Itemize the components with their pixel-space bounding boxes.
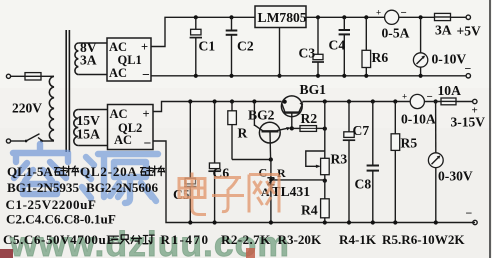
wire: LM7805 output rail to +5V fuse	[306, 16, 435, 18]
value label R2	[301, 111, 318, 126]
wire: bottom terminal to switch	[11, 140, 25, 142]
svg-text:−: −	[142, 67, 150, 82]
terminal 0V (5V section)	[466, 74, 470, 78]
fuse 3A	[435, 13, 467, 20]
svg-text:R2: R2	[301, 111, 318, 126]
wire: QL1 + output up to top rail	[151, 17, 255, 46]
capacitor C5	[184, 99, 196, 224]
svg-text:+: +	[402, 92, 407, 102]
svg-text:+: +	[376, 8, 381, 18]
svg-text:3-15V: 3-15V	[451, 115, 486, 130]
value label R5	[401, 136, 418, 151]
svg-text:AC: AC	[110, 107, 128, 121]
value label C4	[329, 38, 346, 53]
wire: LM7805 ground pin	[279, 28, 281, 76]
svg-text:−: −	[465, 62, 472, 76]
note line 1: QL1-5A silicon bridge QL2-20A silicon bridge	[7, 164, 165, 179]
svg-text:C2: C2	[237, 39, 254, 54]
polarity + of 3-15V output	[472, 105, 478, 117]
svg-text:R1-470: R1-470	[161, 232, 210, 247]
value label 220V	[12, 101, 42, 116]
svg-text:R5.R6-10W2K: R5.R6-10W2K	[382, 232, 465, 247]
svg-text:R2-2.7K: R2-2.7K	[221, 232, 271, 247]
svg-text:R: R	[238, 126, 248, 141]
watermark blue glyph 1	[13, 144, 68, 194]
resistor R6	[362, 15, 371, 78]
node: BG2 base / TL431 cathode junction	[269, 157, 273, 161]
polarity - of PA2	[427, 91, 433, 103]
capacitor C8	[367, 99, 379, 224]
value label R	[238, 126, 248, 141]
bridge rectifier QL2	[108, 105, 154, 151]
svg-text:−: −	[144, 136, 152, 151]
capacitor C6	[208, 99, 220, 224]
wire: secondary2 bottom to QL2	[78, 145, 107, 147]
wire: secondary1 bottom to QL1	[78, 74, 107, 76]
watermark orange char dian	[179, 173, 206, 215]
capacitor C7	[343, 99, 355, 224]
wire: QL2 - down to bottom rail	[153, 141, 475, 223]
watermark blue glyph 2	[82, 154, 158, 203]
watermark orange char wang	[249, 175, 279, 213]
svg-text:LM7805: LM7805	[258, 10, 307, 25]
svg-text:C5.C6-50V4700uF: C5.C6-50V4700uF	[3, 232, 115, 247]
capacitor C2	[226, 15, 238, 78]
shunt regulator TL431	[267, 160, 274, 225]
value label R4	[301, 203, 318, 218]
transformer secondary winding 1 (8V 3A)	[75, 43, 78, 75]
svg-text:C4: C4	[329, 38, 346, 53]
svg-text:AC: AC	[109, 66, 127, 80]
polarity - of 3-15V output	[466, 206, 473, 220]
value label R3	[331, 152, 348, 167]
svg-text:R6: R6	[372, 50, 389, 65]
pin label C (cathode)	[259, 166, 268, 180]
value label 15A	[77, 127, 101, 142]
wire: QL1 - to bottom rail (0V of 5V section)	[151, 75, 467, 77]
svg-text:BG2: BG2	[248, 108, 275, 123]
value label C1	[199, 39, 216, 54]
watermark url www.dziuu.com	[9, 224, 290, 258]
svg-text:R4: R4	[301, 203, 318, 218]
value label 0-5A	[382, 26, 410, 41]
net label 3-15V	[451, 115, 486, 130]
svg-text:BG2-2N5606: BG2-2N5606	[86, 180, 158, 195]
note line 5: C5.C6-50V4700uF (three in parallel) R1-470 R2-2.7K R3-20K R4-1K R5.R6-10W2K	[3, 232, 465, 247]
svg-text:R5: R5	[401, 136, 418, 151]
value label 10A	[438, 83, 462, 98]
value label C5	[173, 187, 190, 202]
svg-text:QL2-20A: QL2-20A	[80, 164, 138, 179]
bridge rectifier QL1	[107, 38, 151, 82]
regulator U1 LM7805	[255, 6, 307, 28]
node: voltmeter2 tap junction	[424, 99, 441, 103]
designator label TL431	[272, 184, 311, 199]
svg-text:C: C	[259, 166, 268, 180]
note line 3: C1-25V2200uF	[6, 197, 97, 212]
transistor BG1	[281, 96, 303, 131]
svg-text:C1: C1	[199, 39, 216, 54]
resistor R2	[292, 126, 327, 132]
svg-text:0-10V: 0-10V	[432, 52, 467, 67]
voltmeter PV2 0-30V	[428, 102, 443, 225]
fuse 10A	[441, 98, 473, 105]
wire: TL431 reference to R3/R4 node	[269, 178, 325, 181]
transformer secondary winding 2 (15V 15A)	[74, 110, 79, 146]
value label 3A	[80, 53, 97, 68]
transformer primary winding	[49, 76, 54, 140]
ammeter PA2 0-10A	[410, 94, 424, 108]
terminal 3-15V +	[473, 99, 477, 103]
svg-text:0-10A: 0-10A	[401, 112, 436, 127]
svg-text:−: −	[401, 7, 407, 19]
value label R6	[372, 50, 389, 65]
svg-text:220V: 220V	[12, 101, 42, 116]
polarity + of PA2	[402, 92, 407, 102]
transistor BG2	[252, 99, 291, 159]
value label 0-10A	[401, 112, 436, 127]
svg-text:3A: 3A	[435, 23, 452, 38]
svg-text:10A: 10A	[438, 83, 462, 98]
value label 8V	[80, 40, 97, 55]
pin label R (reference)	[277, 166, 286, 180]
terminal: AC line bottom	[6, 139, 10, 143]
watermark red corner patch left	[0, 249, 13, 258]
svg-text:R3-20K: R3-20K	[278, 232, 322, 247]
resistor R4	[321, 181, 330, 225]
watermark red patch center	[246, 248, 255, 258]
terminal +5V	[466, 15, 470, 19]
svg-text:+: +	[141, 40, 148, 54]
polarity - of PA1	[401, 7, 407, 19]
svg-text:R4-1K: R4-1K	[339, 232, 377, 247]
net label +5V	[457, 24, 481, 39]
voltmeter PV1 0-10V	[413, 17, 427, 78]
svg-text:15A: 15A	[77, 127, 101, 142]
wire: switch to primary bottom	[42, 140, 55, 142]
wire: regulated rail BG1 emitter to ammeter	[302, 101, 410, 103]
polarity + of PA1	[376, 8, 381, 18]
svg-text:TL431: TL431	[272, 184, 311, 199]
svg-text:BG1: BG1	[300, 82, 327, 97]
wire: QL2 + up to unregulated rail	[153, 102, 282, 112]
terminal: AC line top	[6, 74, 10, 78]
value label 15V	[77, 113, 101, 128]
potentiometer R3	[306, 151, 329, 183]
svg-text:BG1-2N5935: BG1-2N5935	[7, 180, 79, 195]
designator label BG2	[248, 108, 275, 123]
terminal 0V (3-15V section)	[473, 220, 477, 224]
svg-text:QL1: QL1	[118, 53, 142, 67]
value label C7	[353, 123, 370, 138]
switch K	[25, 134, 43, 143]
value label 0-10V	[432, 52, 467, 67]
ammeter PA1 0-5A	[385, 10, 399, 24]
wire: secondary1 top to QL1	[78, 42, 107, 44]
value label C2	[237, 39, 254, 54]
wire: fuse to primary top	[41, 75, 54, 77]
note line 2: BG1-2N5935 BG2-2N5606	[7, 180, 158, 195]
capacitor C4	[339, 15, 350, 78]
node: LM7805 gnd junction	[277, 74, 281, 78]
pin label A (anode)	[261, 185, 270, 199]
svg-text:+: +	[143, 107, 150, 121]
svg-text:+5V: +5V	[457, 24, 481, 39]
watermark orange char zi	[212, 178, 244, 212]
resistor R (bias)	[228, 99, 237, 159]
wire: R bottom to TL431 cathode node	[232, 159, 271, 161]
page border right edge	[489, 0, 491, 258]
wire: secondary2 top to QL2	[78, 109, 107, 111]
transformer core	[66, 30, 69, 152]
svg-text:0-5A: 0-5A	[382, 26, 410, 41]
svg-text:C1-25V2200uF: C1-25V2200uF	[6, 197, 97, 212]
fuse F (mains)	[25, 73, 41, 80]
wire: output rail down through R2 node to R3	[323, 99, 327, 158]
value label C6	[213, 166, 230, 181]
value label C3	[299, 46, 316, 61]
designator label BG1	[300, 82, 327, 97]
svg-text:−: −	[466, 206, 473, 220]
note line 4: C2.C4.C6.C8-0.1uF	[6, 212, 116, 227]
svg-text:AC: AC	[109, 40, 127, 54]
polarity - of 5V output	[465, 62, 472, 76]
capacitor C1	[190, 15, 202, 78]
capacitor C3	[312, 15, 324, 78]
svg-text:QL1-5A: QL1-5A	[7, 164, 53, 179]
svg-text:R3: R3	[331, 152, 348, 167]
svg-text:0-30V: 0-30V	[438, 169, 473, 184]
svg-text:C8: C8	[355, 177, 372, 192]
svg-text:C7: C7	[353, 123, 370, 138]
svg-text:C2.C4.C6.C8-0.1uF: C2.C4.C6.C8-0.1uF	[6, 212, 116, 227]
svg-text:C3: C3	[299, 46, 316, 61]
value label 3A	[435, 23, 452, 38]
value label C8	[355, 177, 372, 192]
svg-text:3A: 3A	[80, 53, 97, 68]
resistor R5	[391, 99, 400, 224]
svg-text:AC: AC	[114, 133, 132, 147]
wire: top terminal to fuse	[11, 75, 25, 77]
value label 0-30V	[438, 169, 473, 184]
node: voltmeter1 tap junction	[419, 15, 423, 19]
